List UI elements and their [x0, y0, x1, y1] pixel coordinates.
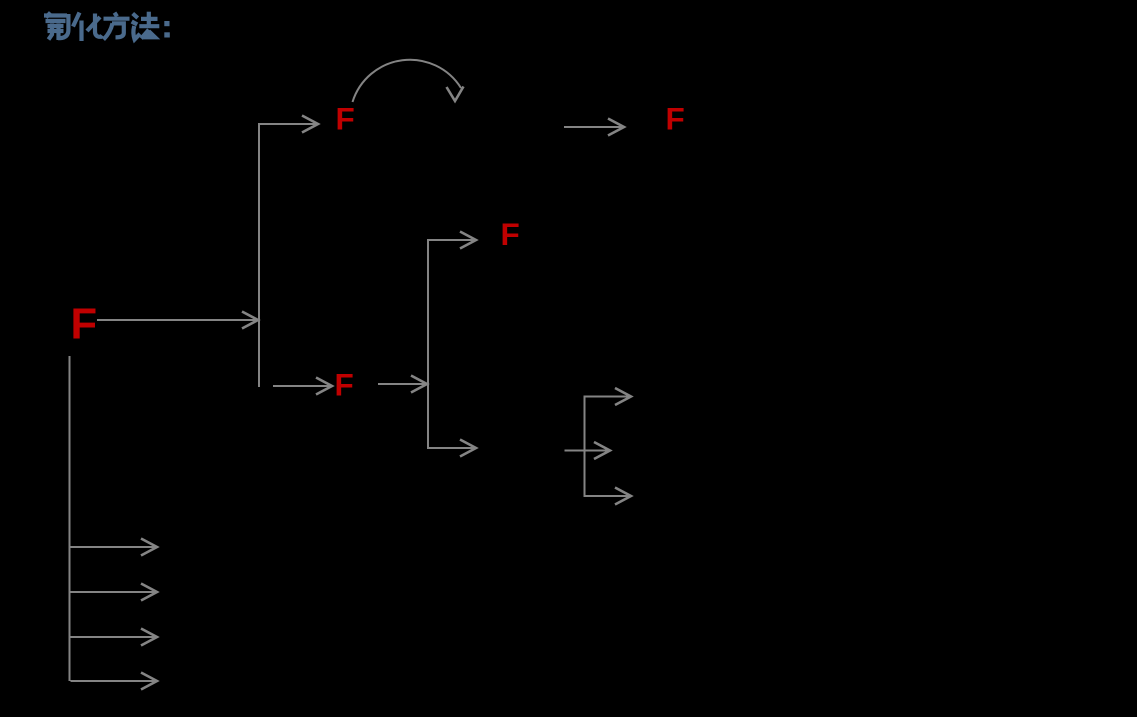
svg-text:F: F [71, 301, 98, 349]
svg-text:F: F [666, 101, 685, 137]
svg-text:F: F [501, 216, 520, 252]
svg-text:F: F [336, 101, 355, 137]
svg-text:F: F [335, 367, 354, 403]
